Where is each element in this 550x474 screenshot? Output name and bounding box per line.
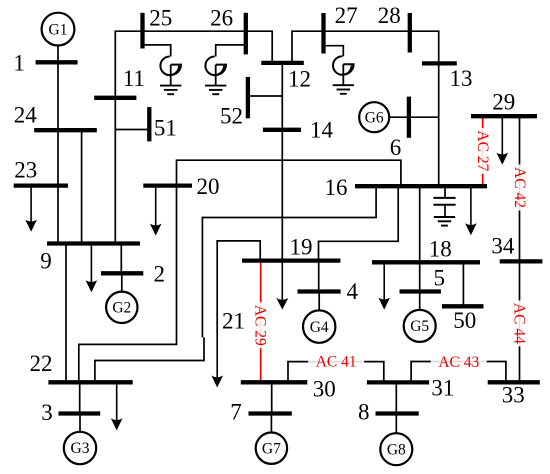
wire shunt 27 entry [324, 46, 344, 57]
svg-text:22: 22 [30, 351, 53, 376]
wire bus31-bus8 [395, 382, 397, 413]
wire bus18-bus50 [462, 262, 464, 306]
wire bus4-G4 [318, 292, 320, 311]
bus 1 [36, 60, 78, 64]
svg-text:34: 34 [491, 233, 515, 258]
wire bus14-bus19 [281, 130, 283, 261]
bus 24 [34, 128, 97, 132]
svg-text:AC 41: AC 41 [316, 354, 357, 371]
wire shunt 25 entry [143, 45, 171, 57]
wire G6-bus6-line [389, 116, 439, 118]
svg-text:12: 12 [288, 67, 311, 92]
svg-text:25: 25 [149, 6, 172, 31]
wire bus5-G5 [419, 292, 421, 310]
svg-text:51: 51 [154, 116, 177, 141]
bus 31 [367, 380, 429, 384]
shunt reactor under bus 26 [205, 57, 226, 76]
svg-text:31: 31 [431, 375, 454, 400]
svg-text:G6: G6 [365, 109, 384, 126]
svg-text:AC 29: AC 29 [251, 305, 268, 346]
wire bus19-bus4 [318, 261, 320, 292]
ground of shunt 25 [160, 86, 181, 95]
bus 25 [140, 13, 144, 49]
svg-text:G2: G2 [112, 300, 131, 317]
load arrow at bus 22 [116, 382, 118, 426]
svg-text:G7: G7 [262, 440, 281, 457]
wire bus12-bus14 [281, 63, 283, 130]
wire bus22-bus3 [79, 382, 81, 413]
generator G1 [42, 13, 75, 46]
wire bus13-bus16 [438, 63, 440, 186]
wire bus19-bus21 [217, 241, 260, 338]
svg-text:30: 30 [313, 377, 336, 402]
bus 19 [242, 258, 340, 262]
bus 6 [407, 97, 411, 138]
wire capacitor lead lower [444, 205, 446, 217]
svg-text:19: 19 [290, 235, 313, 260]
generator G5 [404, 310, 436, 342]
wire bus52 stub [248, 95, 282, 97]
bus 8 [376, 411, 419, 415]
svg-text:3: 3 [41, 400, 53, 425]
ground of shunt 27 [333, 85, 354, 94]
line label AC 44 [516, 300, 524, 346]
wire bus16-bus18-bus5 [419, 186, 421, 291]
generator G4 [303, 310, 335, 342]
line label AC 41 [308, 357, 364, 365]
line label AC 29 [257, 302, 265, 348]
load arrow at bus 29 [501, 116, 503, 161]
svg-text:26: 26 [210, 6, 233, 31]
svg-text:52: 52 [220, 103, 243, 128]
bus 23 [14, 183, 68, 187]
svg-text:AC 27: AC 27 [474, 130, 491, 171]
svg-text:29: 29 [492, 90, 515, 115]
svg-text:G8: G8 [387, 441, 406, 458]
svg-text:20: 20 [197, 174, 220, 199]
wire bus21-bus22 [95, 337, 204, 382]
wire bus12 to bus13 top link [292, 31, 439, 63]
bus 4 [298, 289, 341, 293]
generator G7 [256, 433, 287, 464]
load arrow at bus 16 [470, 186, 472, 231]
svg-text:1: 1 [13, 51, 25, 76]
bus 3 [59, 411, 101, 415]
load arrow at bus 19 [281, 261, 283, 306]
wire bus9-bus22 [65, 244, 67, 383]
svg-text:24: 24 [14, 102, 38, 127]
bus 27 [321, 13, 325, 54]
wire shunt 26 entry [216, 45, 246, 57]
bus 7 [249, 411, 292, 415]
load arrow at bus 21 [216, 337, 218, 383]
wire bus7-G7 [270, 414, 272, 433]
line label AC 43 [431, 358, 487, 366]
generator G6 [359, 102, 389, 132]
wire bus16-bus21 [202, 186, 376, 337]
generator G3 [64, 432, 96, 464]
bus 28 [408, 13, 412, 53]
wire bus3-G3 [79, 414, 81, 432]
ground of capacitor [434, 217, 455, 226]
svg-text:18: 18 [429, 236, 452, 261]
bus 5 [400, 289, 441, 293]
svg-text:8: 8 [358, 400, 370, 425]
wire AC 27 line [482, 116, 484, 186]
svg-text:33: 33 [502, 383, 525, 408]
svg-text:4: 4 [346, 279, 358, 304]
svg-text:6: 6 [390, 135, 402, 160]
svg-text:28: 28 [378, 3, 401, 28]
svg-text:9: 9 [40, 248, 52, 273]
svg-text:7: 7 [230, 400, 242, 425]
bus 16 [355, 184, 487, 188]
wire bus9-bus2 [120, 244, 122, 274]
line label AC 27 [479, 128, 487, 174]
bus 2 [101, 271, 143, 275]
svg-text:50: 50 [453, 308, 476, 333]
bus 33 [488, 380, 540, 384]
bus 51 [147, 107, 151, 141]
svg-text:2: 2 [154, 262, 166, 287]
bus 34 [500, 259, 543, 263]
wire top left loop: bus11 riser to bus12 [115, 31, 272, 243]
load arrow at bus 18 [383, 262, 385, 305]
wire bus24-bus9 [81, 130, 83, 243]
svg-text:5: 5 [434, 266, 446, 291]
shunt reactor under bus 27 [333, 56, 354, 75]
svg-text:13: 13 [450, 66, 473, 91]
wire bus16-bus19 [319, 186, 399, 260]
svg-text:11: 11 [123, 66, 145, 91]
generator G2 [106, 292, 137, 323]
bus 30 [241, 380, 307, 384]
bus 11 [94, 96, 136, 100]
svg-text:21: 21 [222, 308, 245, 333]
wire AC 29 line [260, 263, 262, 383]
wire AC 44 line [519, 261, 521, 382]
svg-text:G4: G4 [310, 319, 329, 336]
svg-text:23: 23 [14, 157, 37, 182]
bus 14 [263, 128, 301, 132]
load arrow at bus 23 [30, 186, 32, 228]
bus 9 [47, 241, 140, 245]
ground of shunt 26 [205, 86, 226, 95]
svg-text:G3: G3 [71, 440, 90, 457]
bus 20 [143, 183, 192, 187]
svg-text:16: 16 [325, 175, 348, 200]
wire AC 42 line [519, 116, 521, 261]
wire AC 41 line [288, 362, 384, 383]
bus 12 [261, 61, 304, 65]
svg-text:AC 43: AC 43 [438, 354, 479, 371]
load arrow at bus 9 [90, 244, 92, 289]
bus 26 [244, 13, 248, 55]
bus 18 [372, 260, 480, 264]
shunt reactor under bus 25 [160, 57, 181, 76]
wire AC 43 line [411, 362, 506, 383]
bus 22 [48, 380, 132, 384]
svg-text:AC 44: AC 44 [511, 303, 528, 344]
load arrow at bus 20 [155, 186, 157, 232]
bus 52 [246, 77, 250, 118]
generator G8 [380, 433, 412, 465]
svg-text:G1: G1 [49, 21, 68, 38]
shunt capacitor plates at bus 16 [433, 198, 455, 205]
wire bus30-bus7 [271, 382, 273, 413]
svg-text:14: 14 [310, 117, 334, 142]
wire bus8-G8 [395, 414, 397, 434]
wire G1-bus1-bus24-bus23-bus9 [57, 46, 59, 244]
wire bus51 stub [115, 129, 149, 131]
svg-text:G5: G5 [410, 318, 429, 335]
wire capacitor lead upper [444, 186, 446, 198]
svg-text:AC 42: AC 42 [511, 167, 528, 208]
wire bus16-bus22 long loop [79, 160, 401, 382]
svg-text:27: 27 [335, 3, 358, 28]
bus 50 [442, 304, 484, 308]
wire bus2-G2 [121, 273, 123, 291]
bus 13 [422, 61, 457, 65]
bus 29 [471, 114, 537, 118]
line label AC 42 [516, 165, 524, 211]
